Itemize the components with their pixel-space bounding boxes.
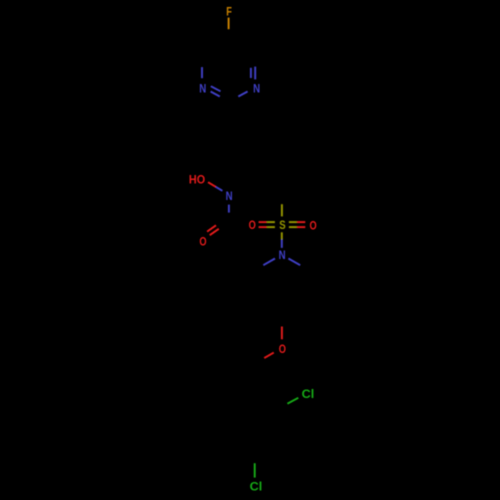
bond Npip-C6pip (blue half) [288, 259, 300, 266]
svg-text:N: N [226, 189, 233, 203]
bond HO-N red half [208, 182, 216, 187]
bond S=O right, upper line (olive+red halves) [289, 221, 297, 223]
bond C2benzene-Cl (green half) [287, 398, 298, 404]
svg-text:F: F [226, 4, 232, 18]
bond C4benzene-Cl (green half) [254, 463, 256, 477]
bond C-S (olive half) [281, 204, 283, 216]
bond F-C5 (orange half) [228, 18, 230, 30]
bond C4-N3 (blue half) [201, 67, 203, 78]
bond Npip-C2pip (blue half) [263, 259, 275, 266]
svg-text:O: O [279, 342, 286, 356]
svg-text:Cl: Cl [250, 480, 263, 494]
bond C=O carbonyl offset line (red half) [207, 225, 216, 231]
bond S=O left, lower line (red+olive halves) [259, 226, 267, 228]
bond C4pip-O ether (red half) [281, 327, 283, 340]
bond O ether-CH2 (red half) [264, 353, 274, 359]
bond S=O right, lower line (olive+red halves) [289, 226, 297, 228]
bond C2-N1 (blue half) [238, 92, 247, 97]
bond S-N blue half [281, 240, 283, 248]
bond S-N olive half [281, 232, 283, 239]
svg-text:N: N [199, 81, 206, 95]
svg-text:N: N [253, 82, 260, 96]
svg-text:S: S [279, 218, 285, 232]
bond N3=C2 double main line (blue half) [211, 92, 220, 97]
svg-text:Cl: Cl [302, 387, 315, 401]
svg-text:O: O [249, 218, 256, 232]
bond N3=C2 double inner line (blue half) [211, 86, 221, 91]
bond S=O left, upper line (red+olive halves) [259, 221, 267, 223]
bond HO-N blue half [216, 187, 223, 191]
bond N1=C6 double inner line (blue half) [250, 68, 252, 78]
svg-text:O: O [310, 219, 317, 233]
bond N1=C6 double main line (blue half) [254, 67, 256, 80]
svg-text:O: O [199, 235, 206, 249]
svg-text:HO: HO [189, 173, 205, 187]
bond C=O carbonyl main line (red half) [210, 229, 219, 235]
bond N-C(=O) (blue half) [228, 205, 230, 213]
svg-text:N: N [279, 248, 286, 262]
